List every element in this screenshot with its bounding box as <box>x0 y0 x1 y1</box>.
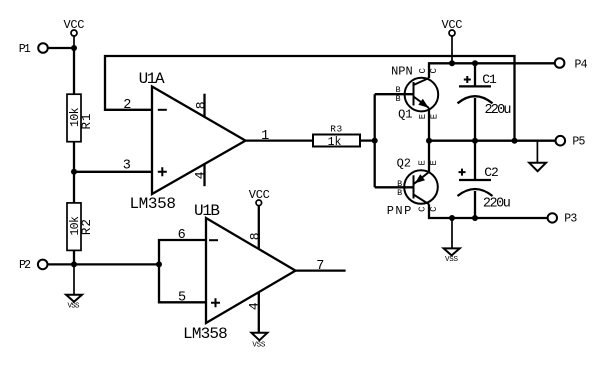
svg-text:B: B <box>395 94 400 104</box>
capacitor C1 <box>458 63 512 140</box>
svg-text:P1: P1 <box>19 43 31 56</box>
svg-text:1: 1 <box>261 129 269 144</box>
wire R1 to node A <box>73 142 75 172</box>
power symbol VSS (U1B pin 4) <box>251 333 267 350</box>
port P5 <box>556 136 586 149</box>
svg-text:1k: 1k <box>328 136 342 149</box>
svg-text:6: 6 <box>178 228 186 243</box>
wire R2 to node B <box>73 250 75 264</box>
node junction C2 bottom on rail <box>472 215 478 221</box>
node A junction R1/R2/pin3 <box>71 169 77 175</box>
svg-text:220u: 220u <box>485 103 512 118</box>
U1B power pin 8 <box>248 206 263 249</box>
svg-text:R1: R1 <box>80 112 94 129</box>
svg-text:4: 4 <box>247 302 262 310</box>
U1A plus input marker <box>158 167 167 176</box>
svg-text:LM358: LM358 <box>183 325 228 343</box>
Q2 pin labels E <box>418 160 440 165</box>
U1B plus input marker <box>211 298 220 307</box>
svg-text:7: 7 <box>316 259 324 274</box>
svg-text:C: C <box>418 68 428 74</box>
svg-text:C1: C1 <box>482 72 497 87</box>
svg-text:VCC: VCC <box>64 18 85 32</box>
svg-text:U1B: U1B <box>194 202 220 220</box>
Q2 pin labels C <box>418 206 439 212</box>
power symbol VSS (below Q2) <box>444 218 460 264</box>
Q1 pin labels B <box>395 85 400 104</box>
svg-text:8: 8 <box>194 101 209 109</box>
wire node A to U1A pin 3 <box>74 171 152 173</box>
svg-text:U1A: U1A <box>139 70 165 88</box>
node emitters junction <box>426 138 432 144</box>
svg-text:C: C <box>418 206 428 212</box>
svg-text:E: E <box>430 114 440 119</box>
U1B minus input marker <box>209 239 218 241</box>
port P3 <box>548 212 578 225</box>
power symbol VCC (U1B pin 8) <box>249 188 270 206</box>
node junction VSS stub on bottom rail <box>449 215 455 221</box>
svg-text:R3: R3 <box>330 123 343 134</box>
node junction C1 top on rail <box>472 60 478 66</box>
svg-text:VSS: VSS <box>68 303 80 311</box>
svg-text:E: E <box>429 160 439 165</box>
op-amp U1B <box>183 202 295 343</box>
svg-text:VSS: VSS <box>252 341 265 349</box>
op-amp U1A <box>129 70 245 213</box>
svg-text:VCC: VCC <box>249 188 270 202</box>
svg-text:Q1: Q1 <box>398 107 412 121</box>
Q1 pin labels E <box>418 114 440 119</box>
power symbol VCC (left) <box>64 18 85 48</box>
wire U1A output pin 1 to R3 <box>246 139 314 141</box>
U1A power pin 8 <box>194 94 209 118</box>
U1A minus input marker <box>158 109 167 111</box>
node junction P1/VCC/R1 <box>71 45 77 51</box>
wire node B to U1B input loop <box>74 263 159 265</box>
power symbol VCC (top) <box>442 18 463 63</box>
wire Q1 collector to VCC rail <box>429 63 555 78</box>
wire bus to Q1 base <box>375 93 414 95</box>
node junction loop/P2 wire <box>156 261 162 267</box>
wire bus to Q2 base <box>375 186 414 188</box>
node base bus junction <box>372 138 378 144</box>
node B junction P2/R2/VSS <box>71 261 77 267</box>
svg-text:R2: R2 <box>80 218 94 235</box>
wire emitter rail to P5 <box>429 140 556 142</box>
transistor Q1 <box>391 64 438 121</box>
svg-text:P2: P2 <box>19 259 31 272</box>
capacitor C2 <box>458 141 511 218</box>
wire base bus <box>374 94 376 187</box>
svg-text:2: 2 <box>123 98 131 113</box>
svg-text:LM358: LM358 <box>129 195 176 213</box>
wire R3 to base node <box>360 139 375 141</box>
resistor R2 <box>67 203 94 251</box>
svg-text:C: C <box>429 68 439 74</box>
ground symbol (right) <box>529 141 546 172</box>
wire U1A pin 2 feedback to output node <box>105 56 515 141</box>
svg-text:3: 3 <box>123 159 131 174</box>
svg-text:5: 5 <box>178 290 186 305</box>
svg-text:P3: P3 <box>564 212 577 225</box>
U1B power pin 4 <box>247 292 262 333</box>
svg-text:VSS: VSS <box>445 256 458 264</box>
svg-text:B: B <box>397 188 402 198</box>
svg-text:220u: 220u <box>483 197 511 212</box>
svg-text:C2: C2 <box>484 165 498 180</box>
svg-text:Q2: Q2 <box>397 157 411 171</box>
svg-text:P5: P5 <box>572 136 585 149</box>
wire P1 to VCC junction <box>48 47 75 49</box>
port P1 <box>19 43 48 56</box>
wire U1B output pin 7 <box>296 269 346 271</box>
node junction VCC stub on rail <box>449 60 455 66</box>
node junction feedback on rail <box>512 138 518 144</box>
svg-text:4: 4 <box>193 171 208 179</box>
svg-text:E: E <box>418 114 428 119</box>
wire Q2 collector to bottom rail <box>429 204 548 218</box>
resistor R1 <box>67 94 94 142</box>
power symbol VSS (below node B) <box>66 264 82 310</box>
svg-text:C: C <box>429 206 439 212</box>
wire P2 to node B <box>48 263 75 265</box>
port P2 <box>19 259 48 272</box>
svg-text:VCC: VCC <box>442 18 463 32</box>
wire Q1 emitter down <box>428 108 430 141</box>
svg-text:P4: P4 <box>575 58 588 71</box>
wire node A to R2 <box>73 172 75 203</box>
resistor R3 <box>313 123 360 149</box>
transistor Q2 <box>387 157 438 218</box>
svg-text:E: E <box>418 160 428 165</box>
node junction C1 bottom on rail <box>472 138 478 144</box>
wire VCC junction to R1 <box>73 48 75 94</box>
wire U1B input loop <box>159 240 206 302</box>
U1A power pin 4 <box>193 163 208 186</box>
port P4 <box>555 58 588 71</box>
wire Q2 emitter from rail <box>428 141 430 172</box>
svg-text:PNP: PNP <box>387 204 413 218</box>
svg-text:8: 8 <box>248 232 263 240</box>
svg-text:NPN: NPN <box>391 64 413 78</box>
Q2 pin labels B <box>397 179 402 198</box>
Q1 pin labels C <box>418 68 439 74</box>
